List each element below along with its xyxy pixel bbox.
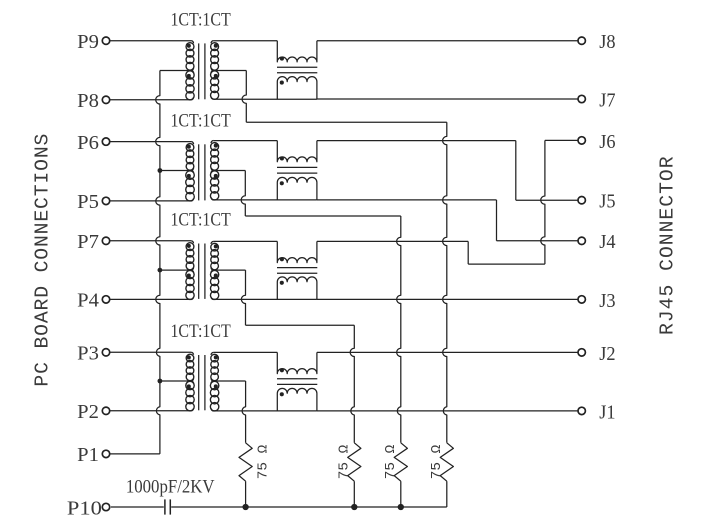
wire vertical x515.8 (515, 141, 517, 201)
T3 right center tap wire (216, 269, 246, 271)
bottom termination rail (171, 506, 447, 508)
choke L1 core (277, 66, 317, 68)
T4 right center tap wire (216, 380, 246, 382)
T3 right winding dot B (214, 273, 218, 277)
transformer T4 left winding coil A (186, 354, 194, 362)
svg-text:P2: P2 (77, 402, 99, 423)
svg-text:P6: P6 (77, 133, 99, 154)
transformer T1 right winding coil A (211, 43, 219, 51)
terminal P4 (102, 296, 109, 303)
terminal J4 (578, 237, 585, 244)
T1 left winding dot A (187, 44, 191, 48)
transformer T1 core (198, 43, 200, 99)
T2 left center tap wire (160, 170, 191, 172)
wire T4 bottom lead to choke L4 (214, 410, 317, 412)
terminal J6 (578, 137, 585, 144)
junction R2/rail (351, 504, 357, 510)
choke L3 core (277, 267, 317, 269)
junction rail/T4 tap (158, 379, 163, 384)
terminal J2 (578, 349, 585, 356)
svg-text:75 Ω: 75 Ω (256, 444, 272, 479)
svg-text:P7: P7 (77, 232, 99, 253)
junction R3/rail (398, 504, 404, 510)
wire T3 top lead to choke L3 (214, 240, 278, 242)
choke L3 bottom winding (277, 277, 317, 300)
svg-text:J3: J3 (599, 291, 615, 312)
choke L4 top winding (277, 352, 317, 373)
choke L4 bottom winding dot (280, 392, 284, 396)
wire R2 column from T3 tap (350, 325, 354, 443)
T2 tap horizontal to resistor column (245, 215, 400, 217)
T1 tap vertical (242, 71, 246, 123)
transformer T4 left winding coil B (186, 381, 194, 389)
svg-text:1CT:1CT: 1CT:1CT (170, 322, 230, 342)
T2 left winding dot B (187, 174, 191, 178)
wire P6 to transformer (110, 141, 191, 143)
svg-text:P8: P8 (77, 91, 99, 112)
T2 right center tap wire (216, 170, 246, 172)
wire R3 column from T2 tap (397, 216, 401, 443)
T1 tap horizontal to resistor column (246, 121, 446, 123)
wire vertical x496.5 (496, 200, 498, 241)
svg-text:1CT:1CT: 1CT:1CT (170, 111, 230, 131)
choke L2 top winding (277, 141, 317, 162)
T3 left winding dot A (187, 244, 191, 248)
svg-text:J1: J1 (599, 402, 615, 423)
T1 right center tap wire (216, 70, 247, 72)
T3 left winding dot B (187, 273, 191, 277)
choke L2 core (277, 166, 317, 168)
terminal P8 (102, 96, 109, 103)
junction rail/T3 tap (158, 268, 163, 273)
choke L4 top winding dot (280, 368, 284, 372)
choke L3 top winding (277, 241, 317, 262)
choke L4 core (277, 378, 317, 380)
T3 tap vertical (241, 270, 245, 325)
transformer T2 left winding coil A (186, 144, 194, 152)
choke L4 bottom winding (277, 388, 317, 411)
wire T3 bottom lead to choke L3 (214, 298, 317, 300)
T1 right winding dot B (214, 74, 218, 78)
transformer T1 right winding coil B (211, 71, 219, 79)
transformer T4 right winding coil B (210, 381, 218, 389)
wire choke L3 top toward J6 (317, 240, 468, 242)
wire P9 to transformer (110, 40, 191, 42)
choke L1 top winding (277, 41, 317, 62)
T4 left winding dot B (187, 384, 191, 388)
wire R4 column from T1 tap (443, 122, 447, 443)
T4 right winding dot B (214, 384, 218, 388)
wire P7 to transformer (110, 240, 191, 242)
transformer T3 right winding coil B (210, 270, 218, 278)
terminal P5 (102, 197, 109, 204)
T3 tap horizontal to resistor column (246, 324, 355, 326)
svg-text:1CT:1CT: 1CT:1CT (170, 211, 230, 231)
wire T1 top lead to choke L1 (214, 40, 278, 42)
terminal J8 (578, 37, 585, 44)
wire choke L3 to J3 (317, 298, 578, 300)
svg-text:J4: J4 (599, 232, 616, 253)
wire choke L2 top toward J5 (317, 140, 516, 142)
wire P4 to transformer (110, 298, 191, 300)
transformer T2 right winding coil B (210, 171, 218, 179)
terminal J7 (578, 95, 585, 102)
T1 right winding dot A (214, 44, 218, 48)
transformer T3 left winding coil B (186, 270, 194, 278)
svg-text:J5: J5 (599, 192, 615, 213)
choke L3 bottom winding dot (280, 281, 284, 285)
T2 right winding dot B (214, 174, 218, 178)
resistor R4 75ohm (440, 443, 453, 481)
T3 left center tap wire (160, 269, 191, 271)
transformer T2 core (198, 144, 200, 200)
wire T2 top lead to choke L2 (214, 140, 278, 142)
wire to J4 (497, 240, 578, 242)
transformer T1 left winding coil B (186, 71, 194, 79)
wire T2 bottom lead to choke L2 (214, 199, 317, 201)
transformer T3 core (198, 244, 200, 299)
choke L3 top winding dot (280, 257, 284, 261)
wire T4 top lead to choke L4 (214, 351, 278, 353)
svg-text:75 Ω: 75 Ω (429, 444, 445, 479)
terminal P7 (102, 237, 109, 244)
svg-text:RJ45 CONNECTOR: RJ45 CONNECTOR (657, 156, 679, 335)
svg-text:P1: P1 (77, 445, 99, 466)
resistor R1 75ohm (239, 443, 252, 481)
wire to J5 (516, 199, 578, 201)
choke L2 top winding dot (280, 156, 284, 160)
T3 right winding dot A (214, 244, 218, 248)
junction R1/rail (242, 504, 248, 510)
wire choke L1 to J7 (317, 98, 578, 100)
T4 left center tap wire (160, 380, 191, 382)
transformer T2 left winding coil B (186, 171, 195, 180)
wire P8 to transformer (110, 99, 191, 101)
terminal P10 (102, 503, 109, 510)
wire choke L4 to J2 (317, 351, 578, 353)
wire P3 to transformer (110, 351, 191, 353)
T2 left winding dot A (187, 145, 191, 149)
resistor R2 75ohm (348, 443, 361, 481)
T4 tap vertical to resistor (242, 381, 246, 443)
T1 left winding dot B (187, 74, 191, 78)
choke L2 bottom winding (277, 177, 317, 200)
terminal P6 (102, 138, 109, 145)
svg-text:1000pF/2KV: 1000pF/2KV (126, 478, 215, 498)
wire P2 to transformer (110, 410, 191, 412)
wire P10 to capacitor (111, 506, 164, 508)
wire vertical x544.9 (J6 riser) (541, 140, 545, 264)
wire vertical x468.2 (467, 241, 469, 264)
svg-text:J7: J7 (599, 90, 616, 111)
transformer T4 right winding coil A (211, 354, 219, 362)
svg-text:75 Ω: 75 Ω (383, 444, 399, 479)
junction rail/T2 tap (158, 168, 163, 173)
svg-text:J6: J6 (599, 132, 616, 153)
wire T1 bottom lead to choke L1 (214, 98, 317, 100)
terminal J5 (578, 197, 585, 204)
wire to J6 (545, 139, 578, 141)
svg-text:J8: J8 (599, 32, 615, 53)
T4 right winding dot A (214, 355, 218, 359)
svg-text:75 Ω: 75 Ω (336, 444, 352, 479)
terminal P9 (102, 37, 109, 44)
capacitor C1 1000pF/2KV (164, 499, 166, 514)
svg-text:PC BOARD CONNECTIONS: PC BOARD CONNECTIONS (31, 134, 53, 387)
svg-text:P5: P5 (77, 192, 99, 213)
wire choke L4 to J1 (317, 410, 578, 412)
resistor R3 75ohm (394, 443, 407, 481)
svg-text:P4: P4 (77, 291, 99, 312)
transformer T2 right winding coil A (211, 143, 219, 151)
terminal J1 (578, 407, 585, 414)
choke L1 bottom winding dot (280, 81, 284, 85)
terminal P2 (102, 407, 109, 414)
terminal J3 (578, 296, 585, 303)
svg-text:1CT:1CT: 1CT:1CT (170, 11, 230, 31)
transformer T3 right winding coil A (211, 243, 219, 251)
choke L2 bottom winding dot (280, 181, 284, 185)
transformer T1 left winding coil A (186, 43, 194, 51)
T4 left winding dot A (187, 355, 191, 359)
transformer T4 core (198, 355, 200, 410)
svg-text:P9: P9 (77, 32, 99, 53)
center-tap rail (P1 bus) (156, 71, 160, 454)
choke L1 top winding dot (280, 57, 284, 61)
wire P1 to center-tap rail (110, 453, 160, 455)
wire choke L1 to J8 (317, 40, 578, 42)
wire choke L2 bottom toward J4 (317, 199, 497, 201)
terminal P3 (102, 349, 109, 356)
svg-text:P3: P3 (77, 344, 99, 365)
wire P5 to transformer (110, 200, 191, 202)
T2 right winding dot A (214, 144, 218, 148)
T1 left center tap wire (160, 70, 191, 72)
choke L1 bottom winding (277, 77, 317, 100)
svg-text:P10: P10 (67, 498, 102, 519)
transformer T3 left winding coil A (186, 243, 194, 251)
terminal P1 (102, 450, 109, 457)
T2 tap vertical (241, 171, 245, 217)
wire horizontal y264.1 (468, 263, 545, 265)
svg-text:J2: J2 (599, 344, 615, 365)
